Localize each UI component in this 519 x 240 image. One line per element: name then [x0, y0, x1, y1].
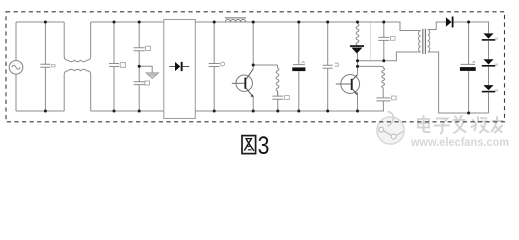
resistor R1 — [276, 65, 279, 96]
node output top — [467, 21, 470, 24]
transistor Q2 — [336, 75, 360, 111]
node bottom C6 — [326, 110, 329, 113]
wire top rail segment 2 — [91, 21, 164, 23]
inductor L3 — [382, 66, 385, 88]
node bottom C1 — [44, 110, 47, 113]
node top C6 — [326, 21, 329, 24]
node output bottom — [467, 112, 470, 115]
tiny label C1 — [52, 64, 55, 66]
T1 secondary winding — [428, 30, 431, 53]
capacitor C6 — [323, 22, 333, 111]
transistor Q1 — [232, 22, 254, 111]
capacitor C2 — [109, 22, 119, 111]
node top C7 — [382, 21, 385, 24]
capacitor CY1 — [134, 22, 145, 66]
capacitor C9 output electrolytic — [461, 22, 475, 113]
node bottom C2 — [113, 110, 116, 113]
node Q1 collector — [252, 64, 255, 67]
inductor L2 core bar — [225, 17, 246, 19]
node CY mid — [138, 65, 141, 68]
transformer T1 — [417, 22, 488, 113]
tiny label C4 — [285, 96, 290, 100]
node top C3 — [213, 21, 216, 24]
node top Q1 — [252, 21, 255, 24]
tiny label CY1 — [146, 46, 151, 50]
tiny label C2 — [120, 63, 125, 68]
wire bottom rail segment 2 — [91, 110, 164, 112]
LED D3 — [482, 33, 498, 40]
LED D5 — [482, 85, 498, 92]
node C7 switch — [382, 59, 385, 62]
wire LED2-LED3 — [488, 67, 490, 85]
wire earth branch — [139, 66, 152, 73]
T1 primary winding — [417, 31, 421, 53]
earth ground symbol — [146, 73, 159, 79]
wire switch node upper — [358, 52, 418, 61]
tiny label C8 — [392, 96, 397, 100]
AC source V1 — [9, 61, 23, 75]
node bottom C3 — [213, 110, 216, 113]
wire bottom rail segment 3 — [195, 110, 384, 112]
diode D1 output rectifier — [446, 17, 452, 26]
resistor R2 clamp — [356, 22, 359, 45]
caption 图3 (图 drawn as vectors, 3 as text) — [242, 136, 256, 154]
node bottom Q1 — [252, 110, 255, 113]
node top C5 — [297, 21, 300, 24]
bridge rectifier internal diode — [169, 66, 175, 68]
capacitor C3 bulk — [209, 22, 220, 111]
dashed frame border — [6, 12, 505, 122]
node top C1 — [44, 21, 47, 24]
capacitor C5 electrolytic negative plate — [292, 67, 305, 71]
watermark text 电子发烧友 (vector approximation) — [418, 116, 503, 134]
wire ghost faint — [370, 23, 372, 61]
capacitor C7 clamp — [378, 22, 389, 61]
wire output top — [454, 22, 489, 33]
tiny label C3 — [221, 62, 225, 66]
capacitor C1 — [40, 22, 50, 111]
inductor L1a common-mode choke upper winding — [64, 22, 91, 62]
bridge rectifier BR1 body — [164, 20, 196, 119]
node top CY — [138, 21, 141, 24]
node bottom C4 — [276, 110, 279, 113]
tiny label C6 — [335, 63, 339, 66]
tiny label CY2 — [145, 81, 150, 85]
inductor L1b common-mode choke lower winding — [64, 69, 91, 111]
wire switch node lower — [358, 65, 384, 67]
tiny label C7 — [391, 37, 395, 41]
diode D2 clamp — [350, 45, 364, 47]
capacitor C8 — [376, 88, 390, 111]
wire Q1 collector node to resistor — [253, 64, 277, 66]
watermark logo circle — [377, 112, 404, 145]
node top R2 — [356, 21, 359, 24]
svg-text:www.elecfans.com: www.elecfans.com — [410, 137, 509, 149]
node top C2 — [113, 21, 116, 24]
capacitor C5 electrolytic — [293, 22, 305, 111]
svg-text:3: 3 — [258, 132, 270, 157]
wire secondary bottom lead — [431, 52, 489, 113]
capacitor CY2 — [134, 66, 145, 111]
wire top rail segment 1 — [16, 21, 64, 23]
capacitor C9 polarity mark — [472, 61, 475, 63]
node bottom C5 — [297, 110, 300, 113]
wire secondary top lead — [431, 22, 446, 30]
wire LED1-LED2 — [488, 41, 490, 60]
wire LED3 to bottom — [488, 92, 490, 113]
node bottom Q2 — [356, 110, 359, 113]
T1 core — [423, 29, 426, 54]
LED D4 — [482, 59, 498, 66]
node bottom CY — [138, 110, 141, 113]
node switch 1 — [356, 59, 359, 62]
wire top rail segment 3 — [195, 22, 417, 31]
wire bottom rail segment 1 — [16, 110, 64, 112]
wire left rail — [15, 22, 17, 111]
capacitor C4 — [272, 91, 283, 111]
capacitor C5 polarity mark — [302, 61, 305, 63]
node switch 2 — [356, 65, 359, 68]
inductor L2 on rail — [225, 19, 245, 22]
